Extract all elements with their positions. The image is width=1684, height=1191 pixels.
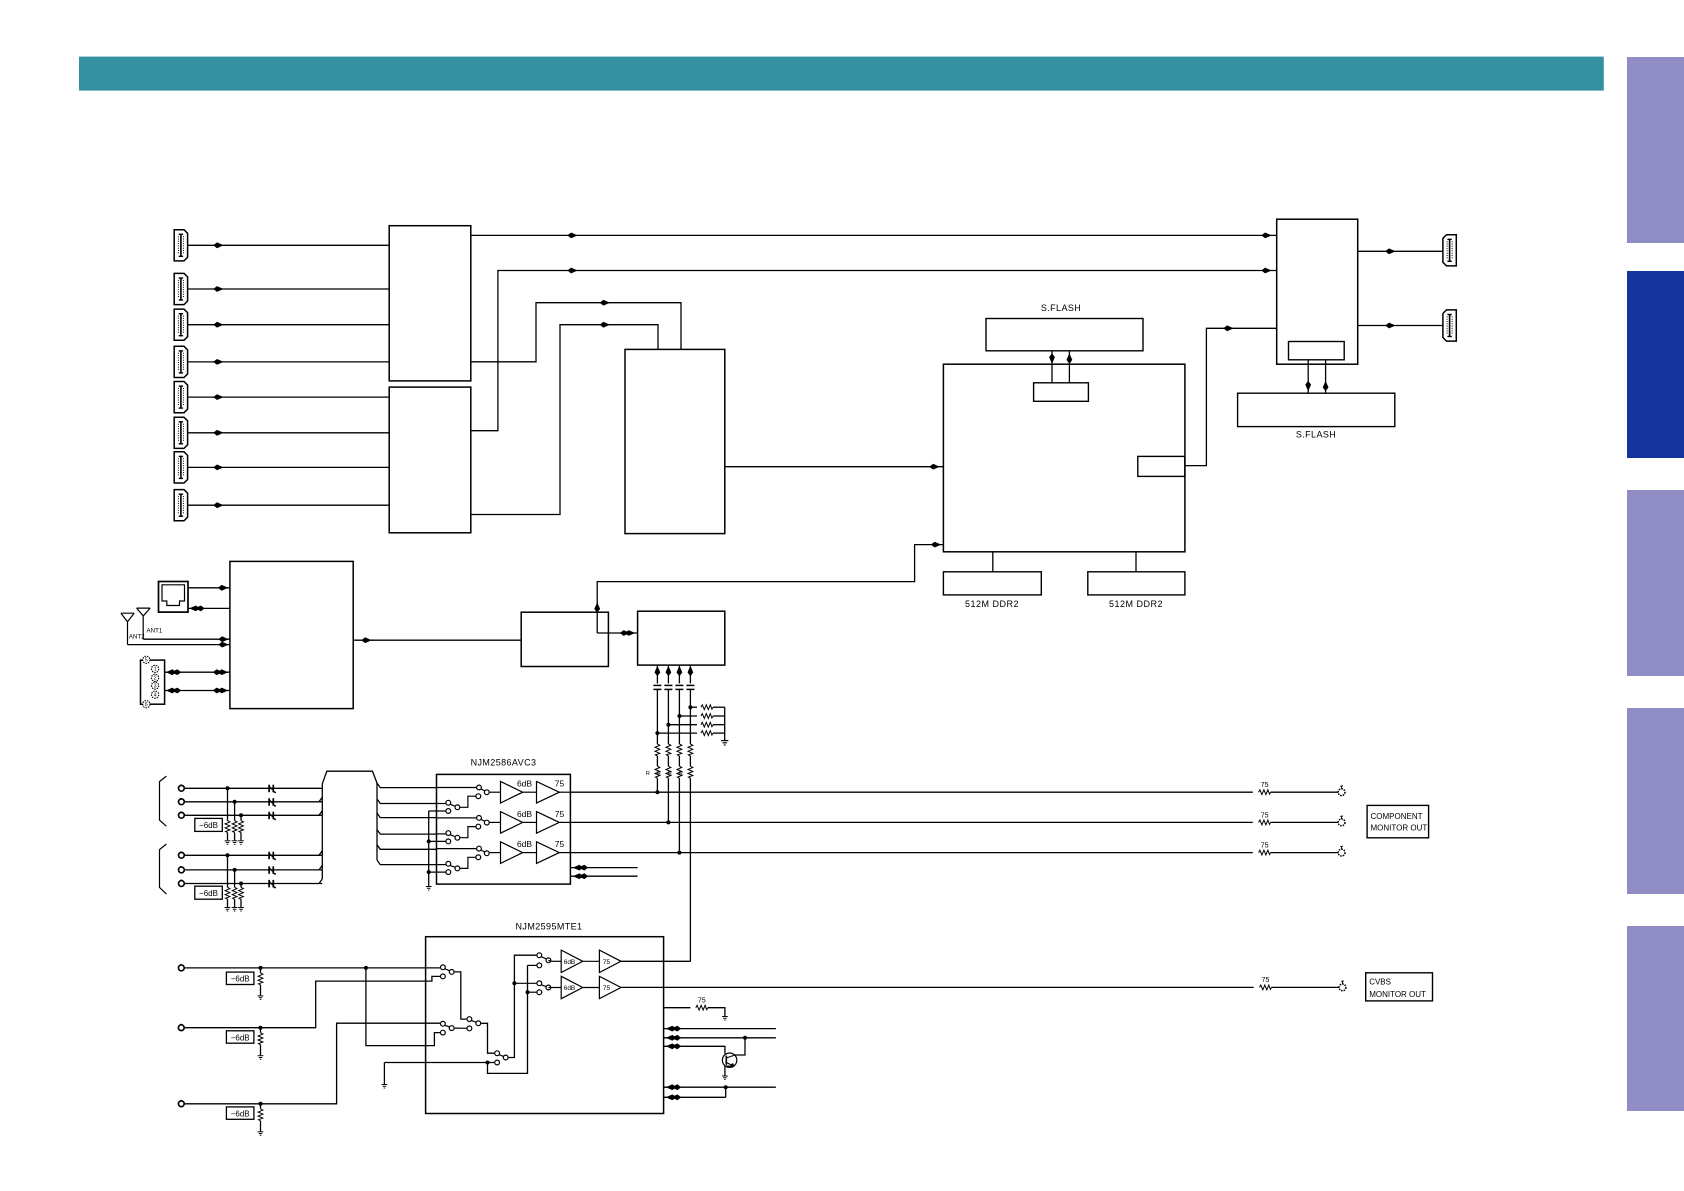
CVBS input jack 1 xyxy=(178,965,184,971)
switch lever xyxy=(450,835,455,837)
S1 throw to next xyxy=(455,972,467,1019)
COMPONENT MONITOR OUT box xyxy=(1367,805,1429,837)
DIN pin 5 xyxy=(143,656,150,663)
input group bracket 1 xyxy=(160,776,167,826)
arrow left xyxy=(666,1026,681,1032)
wire ANT2 to tuner xyxy=(128,644,230,646)
switch lever xyxy=(481,819,485,821)
lever xyxy=(445,969,450,971)
service line 2 xyxy=(664,1037,776,1039)
U10 6dB amp1 xyxy=(561,950,583,972)
transistor Q1 xyxy=(722,1053,736,1067)
svg-text:75: 75 xyxy=(1262,977,1270,984)
ground xyxy=(238,841,244,845)
wire to gnd bus xyxy=(713,706,725,708)
Q1 collector wire xyxy=(735,1038,745,1055)
wire input to routing channel xyxy=(184,814,322,816)
lever xyxy=(541,957,546,959)
CVBS MONITOR OUT box xyxy=(1366,973,1433,1001)
attenuator box -6dB group1 xyxy=(195,818,223,831)
junction xyxy=(666,723,670,727)
junction xyxy=(677,714,681,718)
DIN control connector xyxy=(141,660,165,704)
arrow xyxy=(1261,233,1271,239)
demodulator block U7 xyxy=(521,612,608,666)
ground xyxy=(238,908,244,912)
arrow up xyxy=(594,602,600,612)
arrow on J7 wire xyxy=(213,465,223,471)
ground xyxy=(232,841,238,845)
lever xyxy=(541,985,546,987)
termination resistor xyxy=(225,821,230,833)
CVBS1 wire to switch xyxy=(184,967,443,969)
CVBS termination xyxy=(259,966,263,970)
junction xyxy=(655,731,659,735)
switch lever xyxy=(481,789,485,791)
junction xyxy=(233,800,237,804)
wire J6 to HDMI switch xyxy=(188,432,390,434)
wire J1 to HDMI switch xyxy=(188,244,390,246)
U9 6dB amp ch3 xyxy=(501,842,523,864)
U9 6dB amp ch1 xyxy=(501,781,523,803)
arrow xyxy=(218,585,228,591)
wire to termination resistor xyxy=(240,815,242,820)
arrow left xyxy=(666,1084,681,1090)
component input jack group1 ch1 xyxy=(179,785,185,791)
lever xyxy=(445,1025,450,1027)
wire U5 to S.FLASH2 b xyxy=(1325,360,1327,393)
arrow up into U8 xyxy=(655,666,661,676)
wire U5 to S.FLASH2 xyxy=(1307,360,1309,393)
ground xyxy=(722,1017,728,1021)
termination resistor xyxy=(232,887,237,899)
U9 75ohm driver ch1 xyxy=(537,781,560,803)
HDMI input connector J7 xyxy=(174,452,187,483)
tuner block U6 xyxy=(230,561,353,708)
wire amp to driver xyxy=(523,791,537,793)
termination resistor xyxy=(701,705,713,710)
wire SoC to DDR2 B xyxy=(1135,552,1137,572)
attenuator box -6dB group2 xyxy=(195,886,223,899)
svg-text:75: 75 xyxy=(1261,843,1269,850)
svg-text:−6dB: −6dB xyxy=(199,889,218,898)
U10 75 driver amp2 xyxy=(599,976,621,998)
ground xyxy=(382,1085,388,1089)
switch lever xyxy=(450,865,455,867)
wire xyxy=(656,756,658,766)
arrow down xyxy=(1049,353,1055,363)
HDMI input connector J6 xyxy=(174,417,187,448)
wire RJ45 tx to tuner block xyxy=(188,587,230,589)
svg-text:R: R xyxy=(646,771,650,777)
junction xyxy=(239,882,243,886)
right sidebar tab 3 xyxy=(1627,490,1684,676)
teal header bar xyxy=(79,57,1604,91)
wire SoC to DDR2 A xyxy=(992,552,994,572)
U10 switch S7 xyxy=(537,953,542,958)
arrow left xyxy=(573,865,588,871)
component output line y=792.2 xyxy=(570,791,1252,793)
wire from U8 bottom xyxy=(678,665,680,683)
U10 switch S8 xyxy=(537,981,542,986)
HDMI input connector J4 xyxy=(174,346,187,377)
arrow right xyxy=(213,688,228,694)
service line 3 xyxy=(664,1046,725,1054)
serial flash memory box 2 xyxy=(1238,393,1395,426)
branch to S8 pole xyxy=(514,982,536,984)
service line 4 xyxy=(664,1086,776,1088)
elbow link xyxy=(460,796,475,807)
ground xyxy=(225,841,231,845)
svg-text:2: 2 xyxy=(154,676,157,682)
svg-text:3: 3 xyxy=(154,683,157,689)
wire xyxy=(240,899,242,907)
lever xyxy=(471,1021,476,1023)
svg-text:R: R xyxy=(679,771,683,777)
wire to gnd bus xyxy=(713,724,725,726)
svg-text:−6dB: −6dB xyxy=(199,821,218,830)
HDMI switch block U1 (inputs 1-4) xyxy=(389,226,471,381)
arrow on J5 wire xyxy=(213,394,223,400)
HDMI input connector J5 xyxy=(174,382,187,413)
wire from U8 bottom xyxy=(667,665,669,683)
wire flash ctrl to S.FLASH1 xyxy=(1051,351,1053,383)
junction xyxy=(364,966,368,970)
wire in2 to switch xyxy=(437,864,446,866)
svg-text:CVBS: CVBS xyxy=(1369,977,1391,986)
wire down to video line xyxy=(689,778,691,961)
antenna ANT2 symbol xyxy=(121,613,134,644)
elbow link xyxy=(460,827,475,838)
wire switch to amp xyxy=(490,821,501,823)
service line 5 xyxy=(664,1096,726,1098)
junction xyxy=(226,853,230,857)
junction on video line xyxy=(655,790,659,794)
ground xyxy=(225,908,231,912)
wire RJ45 rx from tuner block xyxy=(188,607,230,609)
routing channel bundle xyxy=(322,771,377,879)
CVBS input jack 3 xyxy=(178,1100,184,1106)
junction xyxy=(724,1085,728,1089)
wire U1 out1 to U5 xyxy=(471,234,1277,236)
SoC flash controller box xyxy=(1034,383,1089,402)
arrow left xyxy=(166,688,181,694)
U10 switch S3 xyxy=(467,1017,472,1022)
junction xyxy=(226,786,230,790)
arrow up xyxy=(1067,353,1073,363)
svg-text:NJM2595MTE1: NJM2595MTE1 xyxy=(516,922,583,932)
Q1 emitter to ground xyxy=(725,1066,734,1075)
wire to termination resistor xyxy=(668,724,697,726)
wire J7 to HDMI switch xyxy=(188,466,390,468)
arrow right xyxy=(213,669,228,675)
wire to termination resistor xyxy=(234,802,236,821)
ground stub ext xyxy=(383,1063,385,1085)
component input jack group1 ch3 xyxy=(179,812,185,818)
U5 flash interface box xyxy=(1289,342,1345,360)
ground xyxy=(232,908,238,912)
ground xyxy=(258,1056,264,1060)
U9 6dB amp ch2 xyxy=(501,812,523,834)
arrow up into U8 xyxy=(666,666,672,676)
svg-text:−6dB: −6dB xyxy=(231,1109,250,1118)
arrow xyxy=(600,300,610,306)
junction xyxy=(486,1061,490,1065)
HDMI input connector J8 xyxy=(174,490,187,521)
HDMI input connector J2 xyxy=(174,273,187,304)
wire ANT1 to tuner xyxy=(143,638,230,640)
svg-text:−6dB: −6dB xyxy=(231,1033,250,1042)
arrow up into U8 xyxy=(688,666,694,676)
termination resistor xyxy=(701,722,713,727)
CVBS termination xyxy=(259,1026,263,1030)
arrow left xyxy=(666,1094,681,1100)
arrow left xyxy=(573,873,588,879)
wire to termination resistor xyxy=(227,855,229,887)
wire below capacitor xyxy=(689,689,691,744)
U10 switch S2 xyxy=(441,1021,446,1026)
wire to termination resistor xyxy=(679,715,697,717)
resistor vertical xyxy=(688,744,693,756)
svg-text:6dB: 6dB xyxy=(564,985,576,992)
resistor vertical xyxy=(655,744,660,756)
wire demod TS up to SoC xyxy=(597,545,943,633)
svg-text:75: 75 xyxy=(555,839,565,849)
wire below capacitor xyxy=(656,689,658,744)
arrow xyxy=(218,642,228,648)
wire SoC to U5 xyxy=(1185,328,1277,465)
ext video line into U10 xyxy=(384,1062,494,1064)
junction on video line xyxy=(677,851,681,855)
wire input to routing channel xyxy=(184,883,322,885)
arrow xyxy=(218,636,228,642)
TS bridge block U8 xyxy=(638,611,725,665)
junction xyxy=(688,705,692,709)
wire tuner to demod xyxy=(353,639,521,641)
wire input to routing channel xyxy=(184,869,322,871)
arrow xyxy=(1261,268,1271,274)
wire driver to block edge xyxy=(559,821,570,823)
switch lever xyxy=(481,850,485,852)
junction xyxy=(239,813,243,817)
svg-text:75: 75 xyxy=(698,997,706,1004)
lever xyxy=(499,1055,504,1057)
S6 riser to amp switches xyxy=(509,955,537,1057)
main SoC chip U4 xyxy=(943,364,1185,552)
right sidebar tab 1 xyxy=(1627,57,1684,243)
wire in2 to switch xyxy=(437,803,446,805)
svg-text:75: 75 xyxy=(1261,782,1269,789)
arrow up xyxy=(1323,381,1329,391)
resistor vertical xyxy=(677,744,682,756)
switch lever xyxy=(450,804,455,806)
termination res line xyxy=(664,1007,691,1009)
svg-text:6dB: 6dB xyxy=(564,959,576,966)
termination resistor xyxy=(239,821,244,833)
wire DIN pin1 to tuner xyxy=(165,671,230,673)
wire demod to TS bridge xyxy=(597,632,637,634)
junction on video line xyxy=(666,820,670,824)
svg-text:75: 75 xyxy=(603,985,611,992)
sync stub 2 xyxy=(570,875,637,877)
U9 select ground bus xyxy=(428,811,430,886)
svg-text:−6dB: −6dB xyxy=(231,975,250,984)
resistor R vertical xyxy=(677,766,682,778)
svg-text:ANT2: ANT2 xyxy=(129,634,145,641)
HDMI switch block U2 (inputs 5-8) xyxy=(389,387,471,533)
wire down to video line xyxy=(656,778,658,792)
arrow down xyxy=(1305,381,1311,391)
wire xyxy=(227,833,229,841)
wire driver to block edge xyxy=(559,852,570,854)
component output line y=822.4 xyxy=(570,821,1252,823)
wire U2 out2 to U3 xyxy=(471,325,658,515)
CVBS output line xyxy=(621,986,1254,988)
wire xyxy=(227,899,229,907)
DDR2 memory box A xyxy=(943,572,1041,595)
wire to termination resistor xyxy=(240,884,242,888)
DIN pin 3 xyxy=(152,682,159,689)
wire amp to driver xyxy=(523,821,537,823)
junction xyxy=(512,981,516,985)
right sidebar tab 4 xyxy=(1627,708,1684,894)
svg-text:5: 5 xyxy=(145,658,148,664)
arrow on J2 wire xyxy=(213,286,223,292)
wire to switch pole xyxy=(437,787,477,789)
75 ohm resistor xyxy=(1260,985,1272,990)
resistor xyxy=(696,1005,708,1010)
S3 to S4 wire xyxy=(481,1023,494,1053)
wire to gnd bus xyxy=(713,715,725,717)
wire down to video line xyxy=(667,778,669,822)
wire J3 to HDMI switch xyxy=(188,324,390,326)
arrow up into U8 xyxy=(677,666,683,676)
wire to gnd bus xyxy=(713,732,725,734)
wire J2 to HDMI switch xyxy=(188,288,390,290)
svg-text:6dB: 6dB xyxy=(517,779,532,789)
wire driver to block edge xyxy=(559,791,570,793)
U9 75ohm driver ch3 xyxy=(537,842,560,864)
CVBS termination xyxy=(259,1102,263,1106)
component output line y=852.6 xyxy=(570,852,1252,854)
arrow xyxy=(1385,248,1395,254)
75 ohm resistor xyxy=(1259,790,1271,795)
termination resistor xyxy=(225,887,230,899)
wire input to routing channel xyxy=(184,854,322,856)
ground xyxy=(721,741,728,745)
ground xyxy=(722,1076,728,1080)
wire down to video line xyxy=(678,778,680,852)
arrow xyxy=(567,233,577,239)
arrow on J3 wire xyxy=(213,322,223,328)
arrow xyxy=(361,637,371,643)
wire J8 to HDMI switch xyxy=(188,504,390,506)
wire U5 to HDMI out 1 xyxy=(1358,250,1443,252)
CVBS1 branch down xyxy=(366,968,440,1046)
arrow into SoC xyxy=(931,542,941,548)
resistor R vertical xyxy=(666,766,671,778)
wire xyxy=(667,756,669,766)
HDMI transmitter block U5 xyxy=(1277,219,1358,364)
wire from U8 bottom xyxy=(656,665,658,683)
SoC output interface box xyxy=(1138,456,1185,476)
arrow into SoC xyxy=(929,464,939,470)
input group bracket 2 xyxy=(160,844,167,894)
-6dB box cvbs1 xyxy=(226,972,254,984)
junction xyxy=(743,1036,747,1040)
svg-text:MONITOR OUT: MONITOR OUT xyxy=(1371,823,1428,832)
link line4-line5 xyxy=(725,1087,727,1097)
svg-text:6: 6 xyxy=(145,702,148,708)
wire to termination resistor xyxy=(234,870,236,887)
arrow left xyxy=(666,1043,681,1049)
right sidebar tab 5 xyxy=(1627,926,1684,1111)
-6dB box cvbs3 xyxy=(226,1107,254,1119)
component input jack group2 ch1 xyxy=(179,852,185,858)
wire to switch pole xyxy=(437,848,477,850)
arrow xyxy=(1385,323,1395,329)
wire U5 to HDMI out 2 xyxy=(1358,325,1443,327)
U9 75ohm driver ch2 xyxy=(537,812,560,834)
termination resistor xyxy=(239,887,244,899)
svg-text:R: R xyxy=(657,771,661,777)
U10 switch S1 xyxy=(441,965,446,970)
svg-text:4: 4 xyxy=(154,693,157,699)
serial flash memory box 1 xyxy=(986,319,1143,351)
NJM2586AVC3 block U9 xyxy=(437,774,571,884)
termination resistor xyxy=(701,731,713,736)
75 ohm resistor xyxy=(1259,820,1271,825)
wire xyxy=(234,899,236,907)
component input jack group1 ch2 xyxy=(179,798,185,804)
resistor R vertical xyxy=(655,766,660,778)
wire in2 to switch xyxy=(437,833,446,835)
arrow left xyxy=(189,606,204,612)
sync stub 1 xyxy=(570,867,637,869)
junction xyxy=(526,990,530,994)
wire input to routing channel xyxy=(184,801,322,803)
ground xyxy=(258,996,264,1000)
arrow left xyxy=(166,669,181,675)
75 ohm resistor xyxy=(1259,850,1271,855)
wire J5 to HDMI switch xyxy=(188,396,390,398)
NJM2595MTE1 block U10 xyxy=(426,937,664,1114)
svg-text:1: 1 xyxy=(154,667,157,673)
wire below capacitor xyxy=(678,689,680,744)
HDMI processor block U3 xyxy=(625,349,725,533)
amp1 output to column riser xyxy=(621,960,690,962)
svg-text:ANT1: ANT1 xyxy=(147,627,163,634)
right sidebar tab 2 (active) xyxy=(1627,271,1684,458)
service line 1 xyxy=(664,1028,776,1030)
wire xyxy=(234,833,236,841)
-6dB box cvbs2 xyxy=(226,1031,254,1043)
svg-text:NJM2586AVC3: NJM2586AVC3 xyxy=(471,758,537,768)
svg-text:S.FLASH: S.FLASH xyxy=(1296,430,1336,440)
resistor vertical xyxy=(666,744,671,756)
wire from U8 bottom xyxy=(689,665,691,683)
resistor R vertical xyxy=(688,766,693,778)
wire U1 out2 to U3 xyxy=(471,303,681,362)
svg-text:75: 75 xyxy=(555,809,565,819)
svg-text:S.FLASH: S.FLASH xyxy=(1041,303,1081,313)
svg-text:6dB: 6dB xyxy=(517,839,532,849)
CVBS2 wire xyxy=(184,976,440,1027)
DDR2 memory box B xyxy=(1088,572,1185,595)
HDMI output connector K2 xyxy=(1443,310,1456,341)
wire xyxy=(678,756,680,766)
wire to termination resistor xyxy=(690,706,697,708)
